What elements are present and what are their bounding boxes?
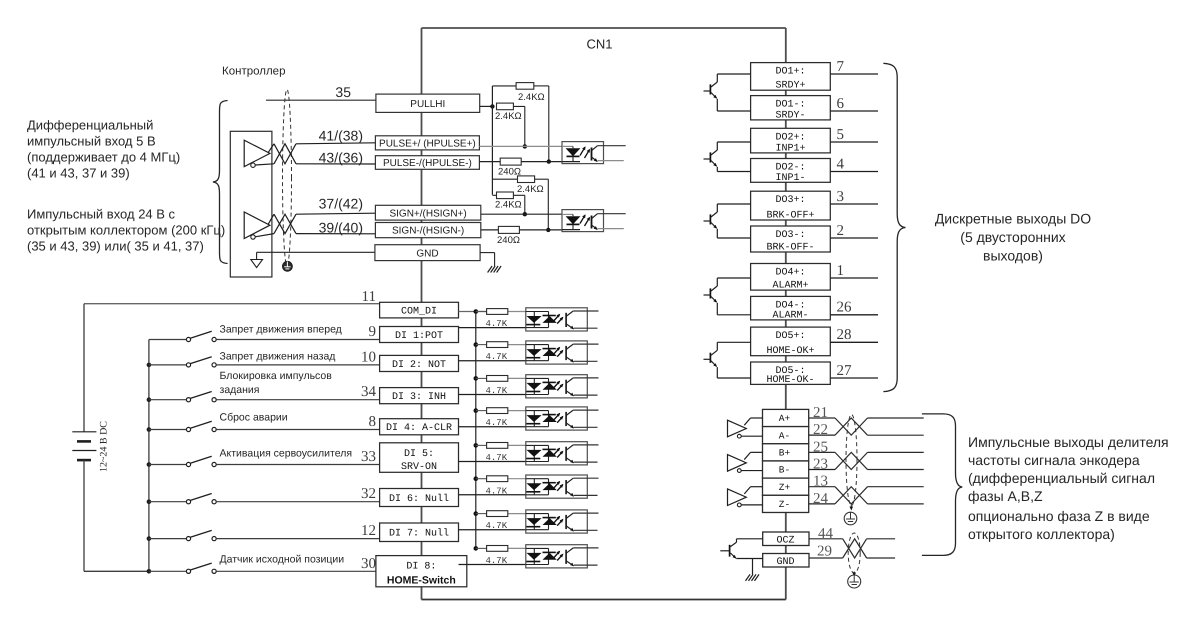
svg-text:DI 1:POT: DI 1:POT	[395, 331, 443, 342]
svg-text:Активация сервоусилителя: Активация сервоусилителя	[220, 448, 353, 460]
svg-text:GND: GND	[776, 557, 794, 568]
svg-text:DO2+:: DO2+:	[775, 132, 805, 143]
svg-text:(поддерживает до 4 МГц): (поддерживает до 4 МГц)	[27, 150, 180, 165]
svg-text:21: 21	[813, 405, 828, 421]
svg-text:SRV-ON: SRV-ON	[401, 462, 437, 473]
svg-text:CN1: CN1	[587, 37, 613, 52]
svg-text:Блокировка импульсов: Блокировка импульсов	[220, 370, 333, 382]
svg-text:2.4KΩ: 2.4KΩ	[517, 184, 544, 195]
svg-text:6: 6	[837, 96, 845, 112]
svg-text:импульсный вход 5 В: импульсный вход 5 В	[27, 134, 156, 149]
svg-text:открытого коллектора): открытого коллектора)	[968, 526, 1115, 542]
svg-text:34: 34	[361, 384, 377, 400]
svg-text:37/(42): 37/(42)	[319, 196, 363, 212]
svg-text:41/(38): 41/(38)	[319, 128, 363, 144]
svg-text:Запрет движения назад: Запрет движения назад	[220, 351, 336, 363]
svg-text:22: 22	[813, 422, 828, 438]
svg-text:SIGN-/(HSIGN-): SIGN-/(HSIGN-)	[392, 226, 464, 237]
svg-text:INP1+: INP1+	[775, 143, 805, 154]
svg-text:DO3-:: DO3-:	[775, 230, 805, 241]
svg-text:OCZ: OCZ	[776, 536, 794, 547]
svg-text:COM_DI: COM_DI	[401, 307, 437, 318]
svg-text:32: 32	[361, 486, 376, 502]
svg-text:HOME-Switch: HOME-Switch	[387, 574, 456, 586]
svg-text:HOME-OK-: HOME-OK-	[766, 375, 814, 386]
svg-text:5: 5	[837, 127, 845, 143]
svg-text:7: 7	[837, 59, 845, 75]
svg-text:30: 30	[361, 556, 376, 572]
svg-text:DO1+:: DO1+:	[775, 67, 805, 78]
svg-text:11: 11	[362, 289, 376, 305]
svg-text:DI 5:: DI 5:	[404, 449, 434, 460]
svg-text:28: 28	[837, 327, 852, 343]
svg-text:13: 13	[813, 474, 828, 490]
svg-text:39/(40): 39/(40)	[319, 220, 363, 236]
svg-text:44: 44	[818, 526, 834, 542]
svg-text:26: 26	[837, 300, 853, 316]
svg-text:(35 и 43, 39) или( 35 и 41, 37: (35 и 43, 39) или( 35 и 41, 37)	[27, 239, 204, 254]
svg-text:HOME-OK+: HOME-OK+	[766, 346, 814, 357]
svg-text:A-: A-	[779, 430, 790, 441]
svg-text:12~24 В DC: 12~24 В DC	[99, 421, 110, 472]
svg-text:3: 3	[837, 189, 845, 205]
svg-text:35: 35	[335, 84, 351, 100]
svg-text:Сброс аварии: Сброс аварии	[220, 412, 288, 424]
svg-text:DO1-:: DO1-:	[775, 100, 805, 111]
svg-text:SIGN+/(HSIGN+): SIGN+/(HSIGN+)	[389, 208, 466, 219]
svg-text:Дискретные выходы DO: Дискретные выходы DO	[935, 211, 1091, 227]
svg-text:25: 25	[813, 439, 828, 455]
svg-text:Z+: Z+	[779, 482, 791, 493]
svg-text:DO4+:: DO4+:	[775, 268, 805, 279]
svg-text:240Ω: 240Ω	[498, 167, 521, 178]
svg-text:PULSE-/(HPULSE-): PULSE-/(HPULSE-)	[383, 158, 472, 169]
svg-text:Z-: Z-	[779, 499, 790, 510]
svg-text:Запрет движения вперед: Запрет движения вперед	[220, 324, 342, 336]
svg-text:Дифференциальный: Дифференциальный	[27, 118, 153, 133]
svg-text:DI 7: Null: DI 7: Null	[389, 528, 449, 540]
svg-text:43/(36): 43/(36)	[319, 149, 363, 165]
svg-text:(41 и 43, 37 и 39): (41 и 43, 37 и 39)	[27, 166, 130, 181]
svg-text:DI 6: Null: DI 6: Null	[389, 493, 449, 505]
svg-text:DI 2: NOT: DI 2: NOT	[392, 360, 446, 371]
svg-text:GND: GND	[416, 248, 438, 259]
svg-text:(5 двусторонних: (5 двусторонних	[960, 229, 1065, 245]
svg-text:8: 8	[369, 414, 377, 430]
svg-text:частоты сигнала энкодера: частоты сигнала энкодера	[968, 452, 1140, 468]
svg-text:A+: A+	[779, 413, 791, 424]
svg-text:SRDY-: SRDY-	[775, 110, 805, 121]
svg-text:DO5+:: DO5+:	[775, 331, 805, 342]
svg-text:2.4KΩ: 2.4KΩ	[518, 92, 545, 103]
svg-text:опционально фаза Z в виде: опционально фаза Z в виде	[968, 508, 1150, 524]
svg-text:1: 1	[837, 263, 845, 279]
svg-text:29: 29	[817, 544, 832, 560]
svg-text:23: 23	[813, 457, 828, 473]
svg-text:PULSE+/ (HPULSE+): PULSE+/ (HPULSE+)	[379, 138, 476, 149]
svg-text:4: 4	[837, 156, 845, 172]
svg-text:задания: задания	[220, 384, 260, 396]
svg-text:ALARM+: ALARM+	[772, 281, 808, 292]
svg-text:B-: B-	[779, 465, 790, 476]
svg-text:9: 9	[369, 324, 377, 340]
svg-text:33: 33	[361, 449, 376, 465]
svg-text:Импульсные выходы делителя: Импульсные выходы делителя	[968, 434, 1169, 450]
svg-text:SRDY+: SRDY+	[775, 81, 805, 92]
svg-text:Импульсный вход 24 В с: Импульсный вход 24 В с	[27, 207, 176, 222]
svg-text:2: 2	[837, 223, 845, 239]
svg-text:фазы A,B,Z: фазы A,B,Z	[968, 488, 1043, 504]
svg-text:27: 27	[837, 363, 853, 379]
svg-text:BRK-OFF+: BRK-OFF+	[766, 211, 814, 222]
svg-text:2.4KΩ: 2.4KΩ	[495, 200, 522, 211]
svg-text:DI 3: INH: DI 3: INH	[392, 392, 446, 403]
svg-text:ALARM-: ALARM-	[772, 310, 808, 321]
svg-text:DI 8:: DI 8:	[406, 562, 436, 573]
svg-text:B+: B+	[779, 448, 791, 459]
svg-text:DO3+:: DO3+:	[775, 195, 805, 206]
svg-text:выходов): выходов)	[983, 248, 1043, 264]
svg-text:240Ω: 240Ω	[497, 235, 520, 246]
svg-text:10: 10	[361, 349, 376, 365]
svg-text:(дифференциальный сигнал: (дифференциальный сигнал	[968, 470, 1155, 486]
svg-text:открытым коллектором (200 кГц): открытым коллектором (200 кГц)	[27, 223, 225, 238]
svg-text:BRK-OFF-: BRK-OFF-	[766, 243, 814, 254]
svg-text:12: 12	[361, 523, 376, 539]
svg-text:Контроллер: Контроллер	[222, 66, 285, 78]
svg-text:Датчик исходной позиции: Датчик исходной позиции	[220, 554, 345, 566]
svg-text:DI 4: A-CLR: DI 4: A-CLR	[386, 423, 452, 434]
svg-text:PULLHI: PULLHI	[410, 99, 445, 110]
svg-text:INP1-: INP1-	[775, 173, 805, 184]
svg-text:2.4KΩ: 2.4KΩ	[495, 111, 522, 122]
svg-text:24: 24	[813, 491, 829, 507]
